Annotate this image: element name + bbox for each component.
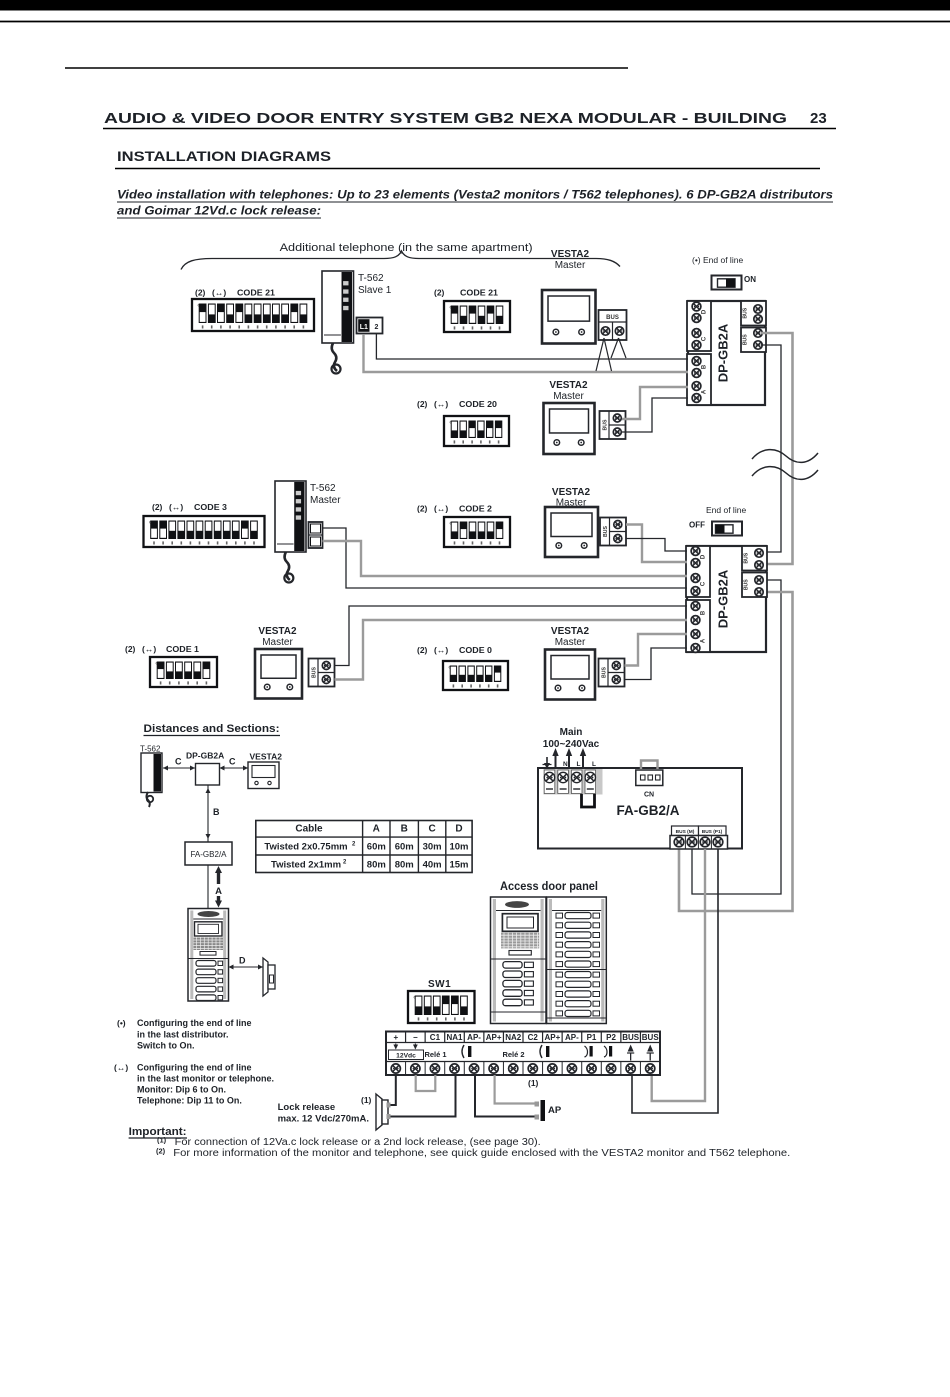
svg-text:(2): (2) xyxy=(195,288,206,298)
svg-text:AUDIO & VIDEO DOOR ENTRY SYSTE: AUDIO & VIDEO DOOR ENTRY SYSTEM GB2 NEXA… xyxy=(104,110,787,127)
svg-text:(↔): (↔) xyxy=(142,644,156,654)
svg-text:(1): (1) xyxy=(157,1136,167,1145)
svg-text:80m: 80m xyxy=(367,860,386,871)
svg-text:CODE 0: CODE 0 xyxy=(459,645,492,655)
svg-text:B: B xyxy=(401,824,408,835)
svg-text:Relé 2: Relé 2 xyxy=(502,1050,524,1059)
svg-text:DP-GB2A: DP-GB2A xyxy=(716,323,731,382)
svg-text:Switch to On.: Switch to On. xyxy=(137,1041,195,1051)
svg-text:BUS: BUS xyxy=(743,307,749,318)
svg-text:ON: ON xyxy=(744,275,756,284)
svg-text:(2): (2) xyxy=(417,504,428,514)
svg-text:AP+: AP+ xyxy=(544,1033,560,1042)
svg-text:(2): (2) xyxy=(434,288,445,298)
svg-text:15m: 15m xyxy=(449,860,468,871)
svg-text:(•) End of line: (•) End of line xyxy=(692,255,743,265)
svg-text:A: A xyxy=(215,886,222,897)
svg-text:BUS: BUS xyxy=(744,552,750,563)
svg-text:End of line: End of line xyxy=(706,505,746,515)
svg-text:CODE 1: CODE 1 xyxy=(166,644,199,654)
svg-text:FA-GB2/A: FA-GB2/A xyxy=(190,850,227,859)
svg-text:23: 23 xyxy=(810,110,827,127)
svg-text:DP-GB2A: DP-GB2A xyxy=(716,569,731,628)
svg-text:BUS (M): BUS (M) xyxy=(676,829,695,835)
svg-text:Twisted 2x0.75mm: Twisted 2x0.75mm xyxy=(264,842,347,853)
svg-text:VESTA2: VESTA2 xyxy=(250,752,283,762)
svg-text:T-562: T-562 xyxy=(140,745,161,754)
svg-text:N: N xyxy=(563,761,568,768)
svg-text:in the last monitor or telepho: in the last monitor or telephone. xyxy=(137,1074,274,1084)
svg-text:A: A xyxy=(701,638,707,643)
svg-text:C: C xyxy=(428,824,435,835)
svg-text:30m: 30m xyxy=(423,842,442,853)
svg-text:60m: 60m xyxy=(395,842,414,853)
svg-text:VESTA2: VESTA2 xyxy=(549,380,588,391)
svg-text:Video installation with teleph: Video installation with telephones: Up t… xyxy=(117,190,833,202)
svg-text:BUS: BUS xyxy=(642,1033,660,1042)
svg-text:C: C xyxy=(229,757,236,767)
svg-text:VESTA2: VESTA2 xyxy=(551,626,590,637)
svg-text:100~240Vac: 100~240Vac xyxy=(543,739,600,750)
svg-text:Relé 1: Relé 1 xyxy=(424,1050,446,1059)
svg-text:L: L xyxy=(592,761,596,768)
svg-text:B: B xyxy=(213,807,220,817)
svg-text:L: L xyxy=(577,761,581,768)
svg-text:Master: Master xyxy=(555,637,586,648)
svg-text:Access door panel: Access door panel xyxy=(500,879,598,893)
svg-text:Distances and Sections:: Distances and Sections: xyxy=(144,723,280,735)
svg-text:(2): (2) xyxy=(417,645,428,655)
svg-text:BUS: BUS xyxy=(602,419,608,430)
svg-text:Slave 1: Slave 1 xyxy=(358,285,392,296)
svg-text:NA1: NA1 xyxy=(446,1033,463,1042)
svg-text:DP-GB2A: DP-GB2A xyxy=(186,751,224,761)
svg-text:Lock release: Lock release xyxy=(278,1102,336,1113)
svg-text:VESTA2: VESTA2 xyxy=(258,626,297,637)
svg-text:C1: C1 xyxy=(430,1033,441,1042)
svg-text:Cable: Cable xyxy=(295,824,323,835)
svg-text:C: C xyxy=(175,757,182,767)
svg-text:D: D xyxy=(702,309,708,314)
svg-text:For connection of 12Va.c lock: For connection of 12Va.c lock release or… xyxy=(175,1137,541,1148)
svg-text:L1: L1 xyxy=(360,324,368,331)
svg-text:CODE 21: CODE 21 xyxy=(460,288,498,298)
svg-text:OFF: OFF xyxy=(689,521,705,530)
svg-text:C: C xyxy=(702,336,708,341)
svg-text:+: + xyxy=(393,1033,398,1042)
svg-text:CODE 2: CODE 2 xyxy=(459,504,492,514)
svg-text:and Goimar 12Vd.c lock release: and Goimar 12Vd.c lock release: xyxy=(117,206,321,218)
svg-text:A: A xyxy=(373,824,380,835)
svg-text:(1): (1) xyxy=(361,1095,372,1105)
svg-text:Configuring the end of line: Configuring the end of line xyxy=(137,1063,252,1073)
svg-text:VESTA2: VESTA2 xyxy=(552,487,591,498)
svg-text:BUS: BUS xyxy=(311,666,317,677)
svg-text:AP+: AP+ xyxy=(486,1033,502,1042)
svg-text:Master: Master xyxy=(555,260,586,271)
svg-text:(↔): (↔) xyxy=(114,1063,128,1073)
svg-text:C2: C2 xyxy=(528,1033,539,1042)
svg-text:P2: P2 xyxy=(606,1033,616,1042)
svg-text:AP-: AP- xyxy=(565,1033,579,1042)
svg-text:A: A xyxy=(702,389,708,394)
svg-text:D: D xyxy=(455,824,462,835)
svg-text:(2): (2) xyxy=(417,399,428,409)
svg-text:(2): (2) xyxy=(152,502,163,512)
svg-text:CN: CN xyxy=(644,792,654,799)
svg-text:For more information of the mo: For more information of the monitor and … xyxy=(173,1148,790,1159)
svg-text:Twisted 2x1mm: Twisted 2x1mm xyxy=(271,860,341,871)
svg-text:CODE 21: CODE 21 xyxy=(237,288,275,298)
svg-text:C: C xyxy=(701,581,707,586)
svg-text:AP: AP xyxy=(548,1105,562,1116)
svg-text:(↔): (↔) xyxy=(169,502,183,512)
svg-text:B: B xyxy=(701,610,707,615)
svg-text:T-562: T-562 xyxy=(358,273,384,284)
svg-text:60m: 60m xyxy=(367,842,386,853)
svg-text:Additional telephone (in the s: Additional telephone (in the same apartm… xyxy=(280,242,533,254)
svg-text:CODE 20: CODE 20 xyxy=(459,399,497,409)
svg-text:T-562: T-562 xyxy=(310,483,336,494)
svg-text:80m: 80m xyxy=(395,860,414,871)
svg-text:Main: Main xyxy=(560,727,583,738)
svg-text:(2): (2) xyxy=(156,1147,166,1156)
svg-text:FA-GB2/A: FA-GB2/A xyxy=(616,803,679,818)
svg-text:(•): (•) xyxy=(117,1018,126,1028)
svg-text:2: 2 xyxy=(374,324,378,331)
svg-text:(2): (2) xyxy=(125,644,136,654)
svg-text:BUS: BUS xyxy=(606,315,619,321)
svg-text:INSTALLATION DIAGRAMS: INSTALLATION DIAGRAMS xyxy=(117,149,331,164)
svg-text:BUS: BUS xyxy=(601,666,607,677)
svg-text:VESTA2: VESTA2 xyxy=(551,249,590,260)
svg-text:max. 12 Vdc/270mA.: max. 12 Vdc/270mA. xyxy=(278,1114,369,1125)
svg-text:Master: Master xyxy=(553,391,584,402)
svg-text:BUS (P1): BUS (P1) xyxy=(702,829,723,835)
svg-text:B: B xyxy=(702,364,708,369)
svg-text:BUS: BUS xyxy=(622,1033,640,1042)
svg-text:NA2: NA2 xyxy=(505,1033,522,1042)
svg-text:CODE 3: CODE 3 xyxy=(194,502,227,512)
svg-text:Telephone: Dip 11 to On.: Telephone: Dip 11 to On. xyxy=(137,1096,242,1106)
svg-text:SW1: SW1 xyxy=(428,979,451,990)
svg-text:P1: P1 xyxy=(587,1033,597,1042)
svg-text:12Vdc: 12Vdc xyxy=(396,1053,416,1060)
svg-text:BUS: BUS xyxy=(603,525,609,536)
svg-text:D: D xyxy=(701,554,707,559)
svg-text:40m: 40m xyxy=(423,860,442,871)
svg-text:(↔): (↔) xyxy=(434,399,448,409)
svg-text:(1): (1) xyxy=(528,1078,539,1088)
svg-text:Configuring the end of line: Configuring the end of line xyxy=(137,1018,252,1028)
svg-text:Master: Master xyxy=(310,495,341,506)
svg-text:in the last distributor.: in the last distributor. xyxy=(137,1030,229,1040)
svg-text:BUS: BUS xyxy=(744,579,750,590)
svg-text:AP-: AP- xyxy=(467,1033,481,1042)
svg-text:Monitor: Dip 6 to On.: Monitor: Dip 6 to On. xyxy=(137,1085,226,1095)
svg-text:D: D xyxy=(239,956,246,966)
svg-text:BUS: BUS xyxy=(743,334,749,345)
svg-text:−: − xyxy=(413,1033,418,1042)
svg-text:(↔): (↔) xyxy=(212,288,226,298)
svg-text:10m: 10m xyxy=(449,842,468,853)
svg-text:(↔): (↔) xyxy=(434,645,448,655)
svg-text:Master: Master xyxy=(262,637,293,648)
svg-text:(↔): (↔) xyxy=(434,504,448,514)
